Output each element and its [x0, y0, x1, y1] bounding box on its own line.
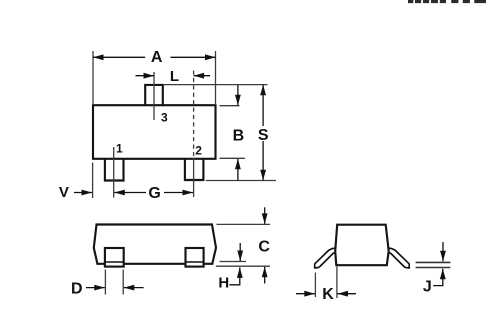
tab top extension line — [163, 84, 268, 86]
top view body — [93, 105, 216, 159]
dim H bottom arrow with elbow — [229, 267, 239, 284]
svg-text:C: C — [258, 239, 270, 256]
dim G left arrow — [114, 192, 146, 194]
common bottom extension — [216, 265, 270, 267]
dim K extension left — [314, 273, 316, 298]
side view body — [94, 225, 216, 264]
body left extension down — [92, 163, 94, 199]
dim V arrow — [74, 192, 92, 194]
dim L left arrow — [136, 75, 155, 77]
svg-text:D: D — [71, 280, 83, 297]
svg-text:3: 3 — [161, 111, 168, 125]
pin 3 centerline — [153, 72, 155, 120]
H top extension — [220, 261, 247, 263]
dim C bottom arrow — [264, 267, 266, 284]
J seating lines — [416, 261, 451, 263]
dim A extension right — [215, 51, 217, 104]
end view body — [335, 225, 389, 266]
pin 1 centerline — [113, 147, 115, 198]
dim J bottom arrow with elbow — [433, 269, 443, 286]
svg-text:2: 2 — [195, 143, 202, 157]
dim D extension right — [122, 270, 124, 295]
dim H top arrow — [239, 243, 241, 261]
body bottom right extension — [220, 157, 246, 159]
svg-text:S: S — [258, 127, 269, 144]
side view right foot — [186, 248, 204, 267]
C top extension — [217, 223, 271, 225]
svg-text:G: G — [148, 185, 160, 202]
top view pin 1 — [105, 159, 124, 181]
dim S lower line with down arrow — [262, 141, 264, 180]
svg-text:A: A — [151, 49, 163, 66]
pin 2 centerline dashed — [193, 71, 195, 159]
dim D right arrow — [124, 287, 144, 289]
dim S upper line with up arrow — [262, 85, 264, 126]
svg-text:V: V — [59, 184, 69, 201]
end view left lead — [315, 248, 337, 268]
svg-text:B: B — [233, 128, 245, 145]
dim K extension right — [336, 267, 338, 299]
top view pin 2 — [185, 159, 204, 180]
end view right lead — [387, 248, 409, 268]
dim B bottom arrow — [237, 159, 239, 181]
seating extension line — [206, 180, 276, 182]
dim A extension left — [92, 51, 94, 104]
top view pin 3 tab — [145, 85, 163, 105]
dim J top arrow — [442, 242, 444, 261]
dim B top arrow — [237, 85, 239, 105]
dim L right arrow — [194, 75, 210, 77]
dim D extension left — [104, 270, 106, 295]
svg-text:1: 1 — [116, 141, 123, 155]
dim K left arrow — [296, 293, 315, 295]
svg-text:K: K — [322, 286, 334, 303]
side view right foot seating line — [186, 261, 204, 263]
side view left foot — [105, 248, 124, 267]
body top right extension — [220, 105, 240, 107]
dim A line right arrow — [171, 56, 216, 58]
svg-text:J: J — [423, 279, 432, 296]
dim C top arrow — [264, 207, 266, 224]
svg-text:L: L — [170, 68, 179, 85]
issue text (clipped at top edge, only glyph bottoms visible) — [408, 0, 486, 3]
dim A line left arrow — [93, 56, 145, 58]
dim D left arrow — [86, 287, 105, 289]
svg-text:H: H — [218, 275, 229, 292]
side view left foot seating line — [105, 261, 124, 263]
dim K right arrow — [338, 293, 357, 295]
dim G right arrow — [164, 192, 193, 194]
